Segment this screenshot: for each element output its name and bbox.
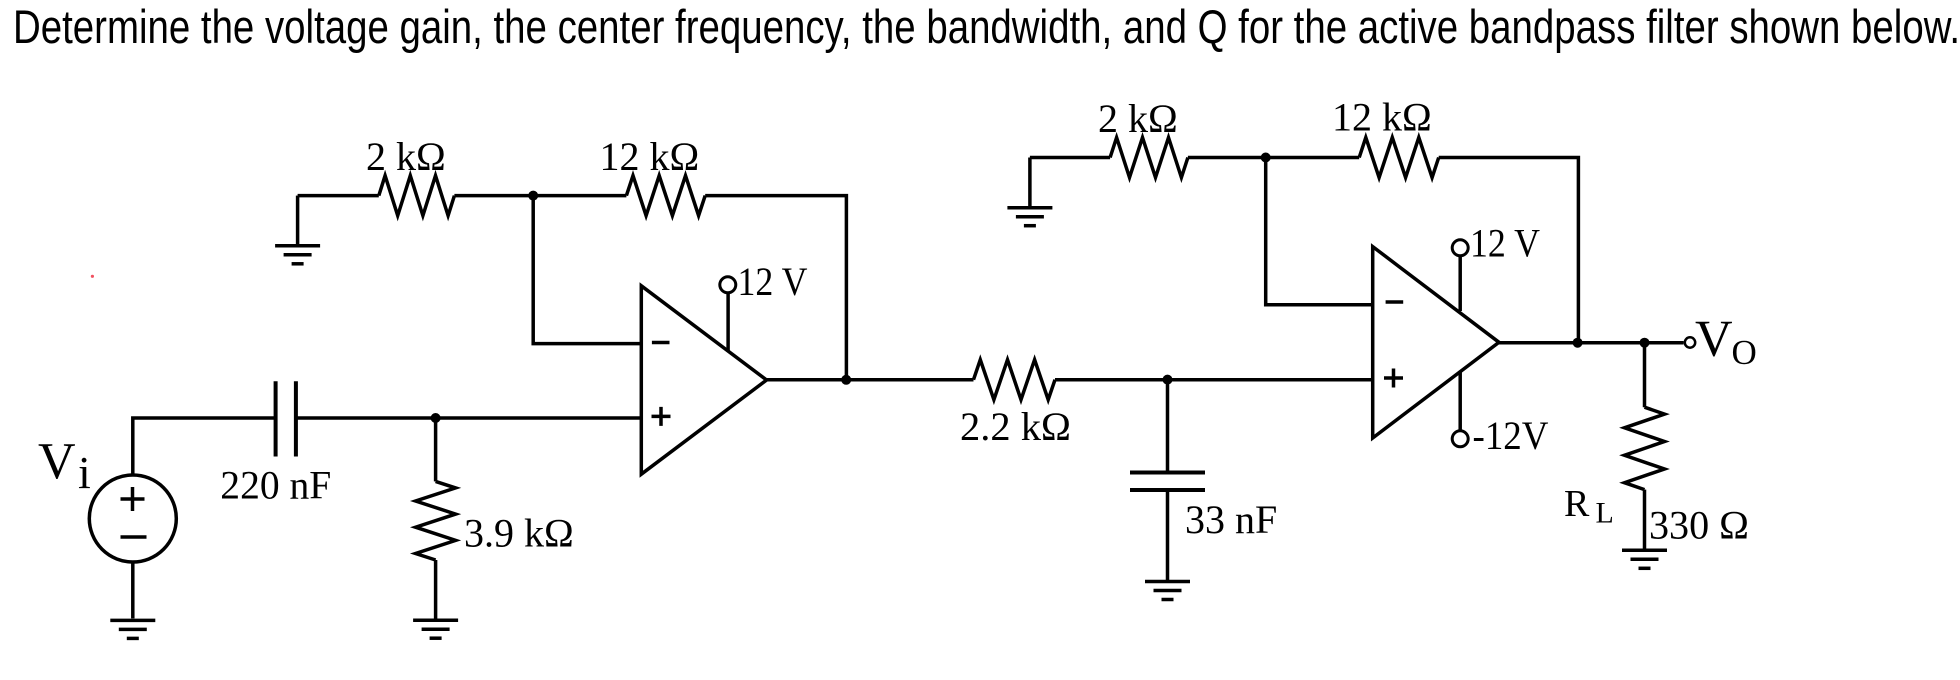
svg-text:33 nF: 33 nF bbox=[1185, 497, 1277, 542]
svg-text:-12V: -12V bbox=[1473, 413, 1549, 458]
svg-text:3.9 kΩ: 3.9 kΩ bbox=[464, 511, 574, 556]
svg-text:i: i bbox=[78, 447, 91, 498]
svg-text:R: R bbox=[1564, 483, 1590, 525]
svg-text:220 nF: 220 nF bbox=[220, 463, 331, 508]
svg-text:12 kΩ: 12 kΩ bbox=[600, 134, 700, 179]
svg-text:12 V: 12 V bbox=[1470, 221, 1540, 266]
svg-text:2.2 kΩ: 2.2 kΩ bbox=[960, 404, 1071, 449]
svg-text:V: V bbox=[1695, 311, 1733, 368]
svg-text:2 kΩ: 2 kΩ bbox=[1098, 96, 1178, 141]
svg-text:Determine the voltage gain, th: Determine the voltage gain, the center f… bbox=[13, 0, 1960, 53]
svg-text:12 V: 12 V bbox=[738, 259, 808, 304]
svg-text:L: L bbox=[1596, 497, 1614, 530]
svg-text:V: V bbox=[38, 433, 76, 490]
svg-text:2 kΩ: 2 kΩ bbox=[366, 134, 446, 179]
svg-text:330 Ω: 330 Ω bbox=[1649, 503, 1749, 548]
svg-text:12 kΩ: 12 kΩ bbox=[1332, 95, 1432, 140]
svg-text:O: O bbox=[1732, 333, 1757, 372]
